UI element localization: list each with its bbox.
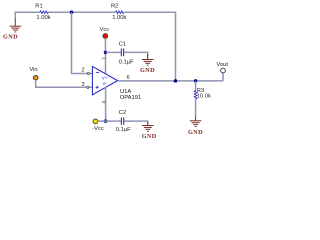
wire C2 right lead	[124, 121, 148, 123]
ground GND1 (top left)	[10, 19, 22, 32]
node A: junction of R1/R2 and feedback	[70, 10, 74, 14]
svg-text:1.00k: 1.00k	[112, 15, 126, 21]
svg-text:0.1µF: 0.1µF	[116, 127, 131, 133]
wire feedback vertical down to pin 2	[72, 12, 93, 73]
pin 2 terminal circle	[87, 72, 89, 74]
wire Vin to pin 3	[36, 80, 92, 87]
svg-text:GND: GND	[140, 67, 155, 74]
svg-text:Vcc: Vcc	[99, 27, 109, 33]
resistor R2	[115, 11, 123, 14]
svg-text:GND: GND	[142, 133, 157, 140]
svg-text:7: 7	[101, 57, 106, 60]
svg-text:R1: R1	[35, 4, 42, 10]
svg-text:-Vcc: -Vcc	[92, 126, 104, 132]
svg-text:Vin: Vin	[29, 67, 37, 73]
op-amp minus sign	[96, 71, 99, 73]
svg-text:V-: V-	[102, 81, 107, 86]
-Vcc power terminal	[93, 119, 98, 124]
node D: feedback junction on output	[174, 79, 178, 83]
wire C1 left lead	[106, 51, 121, 53]
svg-text:3: 3	[81, 82, 84, 88]
wire -Vcc to junction	[98, 120, 106, 122]
op-amp plus sign	[96, 86, 99, 89]
wire Vcc down to pin 7	[104, 38, 106, 75]
svg-text:GND: GND	[188, 129, 203, 136]
node B: junction Vcc / C1	[104, 51, 108, 55]
node C: junction -Vcc / C2	[104, 119, 108, 123]
svg-text:C2: C2	[119, 110, 126, 116]
ground GND5 (at C2)	[142, 122, 153, 131]
wire R3 bottom lead	[195, 99, 197, 118]
svg-text:OPA191: OPA191	[120, 95, 141, 101]
svg-text:0.1µF: 0.1µF	[119, 59, 134, 65]
wire op-amp output	[118, 80, 223, 82]
resistor R1	[40, 11, 48, 14]
wire R3 top lead	[195, 81, 197, 91]
wire pin 4 down to -Vcc rail	[105, 87, 107, 122]
svg-text:GND: GND	[3, 34, 18, 41]
svg-text:6: 6	[127, 75, 130, 81]
wire C1 right lead	[124, 52, 148, 56]
op-amp U1A triangle	[92, 66, 117, 94]
svg-text:C1: C1	[119, 41, 126, 47]
svg-text:V+: V+	[102, 75, 108, 80]
capacitor C1	[121, 49, 123, 57]
ground GND3 (at C1)	[142, 54, 153, 65]
capacitor C2	[121, 117, 123, 124]
svg-text:2: 2	[81, 68, 84, 74]
pin 3 terminal circle	[87, 86, 89, 88]
svg-text:10.0k: 10.0k	[197, 94, 211, 100]
svg-text:Vout: Vout	[216, 62, 228, 68]
wire Vout stub	[222, 73, 224, 81]
wire R1 to R2	[48, 11, 115, 13]
svg-text:R2: R2	[111, 4, 118, 10]
wire R2 to top-right corner and down to output node	[124, 12, 175, 81]
wire C2 left lead	[106, 120, 121, 122]
svg-text:1.00k: 1.00k	[36, 15, 50, 21]
ground GND4 (at R3)	[190, 117, 201, 127]
wire top rail left segment (ground to R1)	[15, 12, 40, 19]
svg-text:4: 4	[101, 101, 106, 104]
resistor R3	[194, 91, 197, 99]
node E: R3 junction on output	[194, 79, 198, 83]
